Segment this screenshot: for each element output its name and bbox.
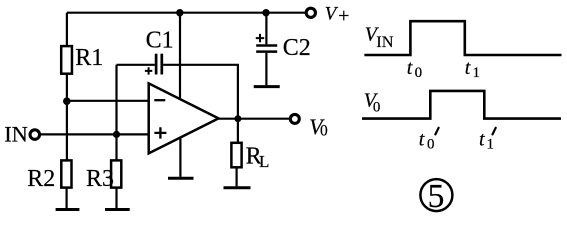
svg-text:t: t xyxy=(419,128,425,150)
svg-text:0: 0 xyxy=(373,99,381,115)
svg-text:R1: R1 xyxy=(75,45,103,71)
svg-text:IN: IN xyxy=(376,32,393,51)
svg-text:+: + xyxy=(338,5,349,27)
svg-text:0: 0 xyxy=(427,137,435,153)
svg-text:1: 1 xyxy=(473,65,481,81)
svg-text:IN: IN xyxy=(4,122,28,147)
svg-text:0: 0 xyxy=(415,65,423,81)
svg-text:t: t xyxy=(479,128,485,150)
svg-text:L: L xyxy=(259,152,269,171)
svg-text:R3: R3 xyxy=(86,166,114,192)
svg-text:C2: C2 xyxy=(283,35,311,61)
svg-text:0: 0 xyxy=(320,123,328,140)
svg-text:t: t xyxy=(407,57,413,79)
svg-text:C1: C1 xyxy=(146,27,174,53)
svg-text:1: 1 xyxy=(487,137,495,153)
svg-text:R2: R2 xyxy=(27,166,55,192)
svg-text:5: 5 xyxy=(428,178,445,214)
svg-text:t: t xyxy=(465,57,471,79)
